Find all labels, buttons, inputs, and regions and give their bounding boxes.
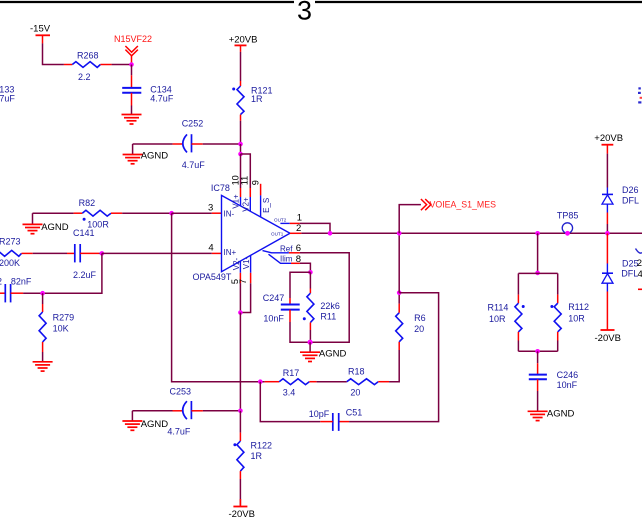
node junction feedback/C51 <box>258 379 263 384</box>
svg-text:10nF: 10nF <box>557 380 578 390</box>
wire R273 to C141 <box>33 252 67 254</box>
pin name Ref <box>280 244 293 253</box>
wire Ref to ground rail <box>300 253 349 342</box>
pin number 2 <box>296 223 301 234</box>
wire to op-amp pin 11 <box>241 154 251 212</box>
node junction 82nF/R279 <box>40 291 45 296</box>
wire left branch to R114 <box>517 273 519 303</box>
pin number 1 <box>297 213 302 224</box>
svg-text:V1+: V1+ <box>232 194 241 209</box>
node junction pin5/pin7 <box>238 310 243 315</box>
svg-text:10nF: 10nF <box>263 313 284 323</box>
wire R18 up to R6 <box>389 350 399 382</box>
svg-text:AGND: AGND <box>141 419 169 430</box>
svg-text:82nF: 82nF <box>11 276 32 286</box>
svg-text:1R: 1R <box>251 451 263 461</box>
resistor R6 <box>396 304 426 350</box>
svg-text:4.7uF: 4.7uF <box>150 94 174 104</box>
wire output column <box>398 233 400 292</box>
pin number 4 fragment right edge <box>638 269 642 280</box>
svg-text:C51: C51 <box>346 407 363 417</box>
resistor R17 <box>265 368 317 397</box>
svg-text:N15VF22: N15VF22 <box>114 34 152 44</box>
zone number 3 <box>297 0 312 26</box>
resistor R268 <box>64 50 112 82</box>
wire C51 to feedback node <box>260 382 320 422</box>
svg-text:AGND: AGND <box>141 151 169 162</box>
svg-text:C246: C246 <box>557 370 579 380</box>
wire node to C247 <box>290 272 310 304</box>
wire Ilim to R11 node <box>300 263 311 272</box>
wire D25 to -20VB <box>606 292 608 331</box>
svg-text:IN-: IN- <box>224 210 235 219</box>
svg-text:10R: 10R <box>489 314 506 324</box>
wire R82 to IN- node <box>122 212 171 214</box>
wire fragment red dash right edge <box>638 288 642 290</box>
pin name Ilim <box>280 255 293 264</box>
wire output row <box>301 232 642 234</box>
net label N15VF22 <box>114 34 152 64</box>
wire R6 to output node <box>398 293 400 304</box>
wire R114 to bottom rail <box>517 332 519 351</box>
wire node down to R279 <box>42 293 44 312</box>
svg-text:22k6: 22k6 <box>320 301 340 311</box>
net label VOIEA_S1_MES <box>421 199 496 210</box>
svg-text:VOIEA_S1_MES: VOIEA_S1_MES <box>430 199 497 209</box>
wire C247 to ground rail <box>290 310 310 343</box>
svg-text:200K: 200K <box>0 258 20 268</box>
svg-text:R114: R114 <box>488 303 509 313</box>
pin number 8 <box>296 254 301 265</box>
svg-text:11: 11 <box>240 176 250 186</box>
ground AGND below C246 <box>528 408 575 420</box>
svg-text:42: 42 <box>0 276 2 286</box>
pin number 7 <box>238 279 248 284</box>
svg-text:OUT1: OUT1 <box>271 231 284 236</box>
node junction IN- <box>169 211 174 216</box>
pin 9 stub E_S <box>260 184 262 217</box>
wire pin 7 hook to pin 5 column <box>240 283 250 312</box>
node junction bottom rail/C246 <box>535 349 540 354</box>
svg-text:DFL: DFL <box>621 269 638 279</box>
pin 5 V2- lead <box>239 261 241 283</box>
pin name IN- <box>224 210 235 219</box>
wire +20VB to R121 <box>240 52 242 86</box>
svg-text:+20VB: +20VB <box>594 133 623 144</box>
svg-text:10K: 10K <box>53 324 69 334</box>
pin number 6 <box>296 243 301 254</box>
wire IN- node to pin 3 <box>172 212 222 214</box>
svg-text:R11: R11 <box>320 312 336 322</box>
svg-text:3.4: 3.4 <box>283 388 296 398</box>
resistor R273 (clipped at left edge) <box>0 237 33 269</box>
wire R17 to R18 <box>317 381 347 383</box>
wire IN- node feedback down <box>172 213 265 382</box>
component fragment arc right edge <box>636 249 642 254</box>
svg-text:R122: R122 <box>251 441 273 451</box>
wire R268 to node <box>112 64 132 66</box>
svg-text:20: 20 <box>414 324 424 334</box>
wire R114/R112 bottom rail <box>518 350 557 352</box>
node junction output row <box>397 231 402 236</box>
svg-text:10R: 10R <box>568 314 585 324</box>
svg-text:2: 2 <box>296 223 301 234</box>
svg-text:R18: R18 <box>348 367 365 377</box>
component fragments right edge top <box>638 87 642 103</box>
svg-text:4: 4 <box>208 243 213 254</box>
wire IN+ node down to 82nF row <box>23 253 102 293</box>
svg-text:R273: R273 <box>0 237 21 247</box>
node junction Ilim/C247/R11 <box>308 270 313 275</box>
svg-text:4.7uF: 4.7uF <box>167 427 191 437</box>
svg-text:R17: R17 <box>283 368 300 378</box>
svg-text:R279: R279 <box>53 312 75 322</box>
svg-text:-20VB: -20VB <box>229 509 255 520</box>
svg-text:7: 7 <box>238 279 248 284</box>
svg-text:+20VB: +20VB <box>229 35 258 46</box>
node junction output/diodes <box>605 231 610 236</box>
capacitor C142 82nF (clipped at left edge) <box>0 276 32 302</box>
wire AGND to R82 <box>33 212 74 214</box>
svg-text:4.7uF: 4.7uF <box>0 94 15 104</box>
wire AGND to C252 <box>133 143 173 145</box>
wire pin 5 down <box>239 283 241 312</box>
pin name E_S <box>262 198 271 213</box>
wire output row to R114 block <box>537 233 539 273</box>
node junction TP85 <box>565 231 570 236</box>
wire R121 to rail node <box>240 115 242 144</box>
ground below C134 <box>122 115 142 125</box>
node junction rail upper <box>238 142 243 147</box>
diode D25 <box>602 259 639 292</box>
svg-text:2: 2 <box>637 258 642 269</box>
resistor R112 <box>550 302 589 332</box>
resistor R122 <box>233 441 272 472</box>
svg-text:V1-: V1- <box>242 256 251 269</box>
wire C51 branch right <box>349 293 439 422</box>
svg-text:3: 3 <box>297 0 312 26</box>
wire -15V to R268 <box>43 43 64 64</box>
resistor R18 <box>347 367 389 398</box>
power -15V <box>30 24 51 44</box>
resistor R121 <box>232 86 272 115</box>
svg-text:R268: R268 <box>77 50 99 60</box>
svg-text:Ref: Ref <box>280 244 293 253</box>
resistor R114 <box>488 303 525 332</box>
ground AGND below R11 <box>300 342 346 361</box>
wire pin 1 to output row <box>300 223 330 233</box>
svg-text:R112: R112 <box>568 302 589 312</box>
pin 1 OUT2 lead <box>280 222 299 224</box>
wire column to R122 <box>239 411 241 441</box>
svg-text:Ilim: Ilim <box>280 255 293 264</box>
svg-text:OPA549T: OPA549T <box>193 272 232 282</box>
pin number 2 fragment right edge <box>637 258 642 269</box>
sheet border top line <box>0 1 642 3</box>
pin 8 Ilim lead <box>269 254 300 263</box>
power -20VB right <box>595 330 621 344</box>
node junction output/R114 column <box>535 231 540 236</box>
resistor R82 <box>74 198 123 229</box>
wire node to R11 <box>309 272 311 293</box>
wire output row to D25 <box>606 233 608 263</box>
wire R112 to bottom rail <box>557 332 559 351</box>
wire C253 to column <box>203 410 241 412</box>
capacitor C141 <box>67 228 99 280</box>
svg-text:R6: R6 <box>414 313 426 323</box>
pin 7 V1- lead <box>250 255 252 283</box>
wire right branch to R112 <box>557 273 559 303</box>
svg-text:-15V: -15V <box>30 24 51 35</box>
svg-text:-20VB: -20VB <box>595 333 621 344</box>
power +20VB right <box>594 133 623 154</box>
svg-text:1R: 1R <box>251 94 263 104</box>
node junction output/C51 branch <box>397 290 402 295</box>
wire to op-amp pin 10 <box>240 154 242 206</box>
pin 6 Ref lead <box>263 251 300 253</box>
svg-text:IC78: IC78 <box>211 183 230 193</box>
capacitor C252 <box>173 119 206 171</box>
wire output node up to net label <box>399 205 421 234</box>
wire C141 to junction <box>99 252 102 254</box>
wire IN+ node to pin 4 <box>102 252 222 254</box>
ground AGND near C253 <box>122 411 168 431</box>
wire AGND to C253 <box>132 410 172 412</box>
pin name OUT2 <box>274 217 287 222</box>
wire C134 to ground <box>131 93 133 115</box>
pin name OUT1 <box>271 231 284 236</box>
pin name IN+ <box>224 248 237 257</box>
pin 2 OUT1 lead <box>290 232 301 234</box>
pin number 9 <box>250 180 260 185</box>
svg-text:AGND: AGND <box>319 349 347 360</box>
wire rail to C246 <box>537 351 539 374</box>
resistor R11 <box>303 293 340 322</box>
pin number 3 <box>208 203 213 214</box>
svg-text:3: 3 <box>208 203 213 214</box>
svg-text:2.2: 2.2 <box>78 72 91 82</box>
node junction C253/column <box>238 409 243 414</box>
pin number 4 <box>208 243 213 254</box>
svg-text:V2+: V2+ <box>241 197 250 212</box>
node junction pin1/pin2 <box>328 231 333 236</box>
capacitor C247 <box>263 293 300 323</box>
ground below R279 <box>33 362 53 371</box>
svg-text:C247: C247 <box>263 293 285 303</box>
diode D26 <box>602 185 639 213</box>
wire R122 to -20VB <box>239 471 241 505</box>
svg-text:IN+: IN+ <box>224 248 237 257</box>
pin name V1- <box>242 256 251 269</box>
svg-text:OUT2: OUT2 <box>274 217 287 222</box>
svg-text:C252: C252 <box>182 119 204 129</box>
power -20VB bottom <box>229 499 255 520</box>
wire R114/R112 top rail <box>518 272 557 274</box>
ground AGND near R82 <box>23 213 69 234</box>
node junction IN+ <box>100 251 105 256</box>
svg-text:AGND: AGND <box>41 222 69 233</box>
wire C252 to +20VB rail <box>203 143 241 145</box>
svg-text:4: 4 <box>638 269 642 280</box>
capacitor C134 <box>122 85 174 104</box>
op-amp U IC78 OPA549T triangle <box>193 183 291 282</box>
capacitor C133 labels (clipped at left edge) <box>0 85 15 104</box>
power +20VB top <box>229 35 258 52</box>
node junction rail lower <box>238 152 243 157</box>
svg-text:TP85: TP85 <box>557 211 579 221</box>
svg-text:E_S: E_S <box>262 198 271 213</box>
wire node to C134 <box>131 65 133 88</box>
node junction R114/R112 top <box>535 271 540 276</box>
capacitor C246 <box>529 370 578 390</box>
pin number 5 <box>230 279 240 284</box>
svg-text:C141: C141 <box>73 228 95 238</box>
wire D26 to output row <box>606 213 608 234</box>
svg-text:9: 9 <box>250 180 260 185</box>
pin number 11 <box>240 176 250 186</box>
capacitor C253 <box>167 386 203 436</box>
svg-text:R82: R82 <box>79 198 96 208</box>
node junction ground rail <box>308 340 313 345</box>
capacitor C51 <box>309 407 363 431</box>
svg-text:2.2uF: 2.2uF <box>73 270 97 280</box>
test point TP85 <box>557 211 579 234</box>
wire C246 to ground <box>537 379 539 411</box>
wire +20VB to D26 <box>606 154 608 188</box>
svg-text:C253: C253 <box>170 386 192 396</box>
svg-text:4.7uF: 4.7uF <box>182 160 206 170</box>
wire column down to C253 row <box>239 313 241 411</box>
wire R11 to ground rail <box>309 323 311 343</box>
svg-text:AGND: AGND <box>547 408 575 419</box>
svg-text:10pF: 10pF <box>309 409 330 419</box>
svg-text:20: 20 <box>350 388 360 398</box>
pin name V2+ <box>241 197 250 212</box>
svg-text:V2-: V2- <box>232 257 241 270</box>
pin name V1+ <box>232 194 241 209</box>
svg-text:D26: D26 <box>622 185 639 195</box>
wire R279 to ground <box>42 342 44 362</box>
node junction R268/N15VF22/C134 <box>129 62 134 67</box>
ground AGND near C252 <box>123 144 169 164</box>
resistor R279 <box>39 312 74 342</box>
wire rail between junctions <box>240 144 242 154</box>
pin name V2- <box>232 257 241 270</box>
svg-text:DFL: DFL <box>622 195 639 205</box>
pin number 10 <box>230 175 240 185</box>
